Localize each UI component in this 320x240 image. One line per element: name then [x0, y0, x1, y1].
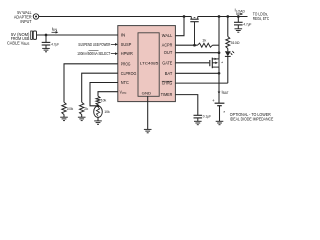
svg-text:4.7μF: 4.7μF [243, 21, 251, 26]
pin CHRG overline [162, 80, 173, 82]
wire: CHRG pin to LED [175, 82, 227, 84]
svg-text:100mA/500mA SELECT: 100mA/500mA SELECT [77, 51, 110, 56]
node: junction dot BAT [218, 72, 221, 75]
wire: WALL pin to rail riser [175, 17, 184, 36]
svg-text:ACPR: ACPR [162, 43, 173, 48]
svg-text:PROG: PROG [121, 61, 131, 66]
svg-text:100k: 100k [67, 107, 74, 111]
ic U1 LTC4085 body [118, 26, 176, 102]
label: 100mA/500mA SELECT with arrow into HPWR [77, 50, 118, 56]
svg-text:GND: GND [142, 91, 152, 96]
transistor Q2 body arrow [215, 62, 218, 65]
svg-text:CLPROG: CLPROG [121, 71, 137, 76]
svg-text:LTC4085: LTC4085 [140, 61, 159, 66]
node: wall adapter input jack J1 [33, 14, 38, 19]
wire: GND pin to ground [147, 96, 149, 129]
svg-text:SUSPEND USB POWER: SUSPEND USB POWER [78, 42, 110, 47]
wire: divider node into thermistor [97, 105, 99, 107]
ground: IC GND [144, 129, 152, 132]
svg-text:IIN: IIN [52, 26, 58, 32]
wire: NTC pin tap to divider midpoint [90, 83, 118, 106]
svg-text:TIMER: TIMER [161, 92, 173, 97]
svg-text:4.7μF: 4.7μF [51, 41, 59, 46]
ground: output cap ground [235, 29, 243, 32]
wire: wall rail from Q1 drain to load [198, 16, 248, 18]
capacitor C1 4.7uF input bypass [42, 35, 51, 49]
ground: input cap ground [42, 48, 50, 51]
svg-text:OUT: OUT [164, 50, 173, 55]
transistor Q1 wall PMOS in series with rail [190, 17, 198, 46]
wire: CLPROG pin to resistor [82, 73, 118, 102]
label: TO LDOS REGS ETC [253, 11, 269, 21]
wire: wall rail from jack to PMOS Q1 [39, 16, 192, 18]
wire: Q2 source to BAT node [218, 67, 220, 73]
ground: CLPROG resistor ground [78, 117, 86, 120]
node: junction dot OUT riser on rail [218, 15, 221, 18]
ground: timer cap ground [194, 121, 202, 124]
svg-text:+: + [212, 98, 215, 103]
battery BT1 single cell Li-Ion [212, 98, 224, 122]
wire: resistor R1 to ground [63, 115, 65, 118]
label: SUSPEND USB POWER with arrow into SUSP [78, 42, 118, 47]
svg-text:INPUT: INPUT [20, 19, 31, 24]
svg-text:ILOAD: ILOAD [235, 8, 246, 14]
transistor Q1 body arrow [193, 17, 196, 18]
wire: resistor R2 to ground [81, 115, 83, 118]
node: junction dot ACPR gate [193, 44, 196, 47]
wire: GATE pin to Q2 gate [175, 62, 209, 64]
ic U1 part number inner box [138, 33, 159, 97]
svg-text:*: * [223, 110, 225, 116]
label: 5V (NOM) FROM USB CABLE VBUS [7, 32, 30, 46]
label: ILOAD current annotation [235, 8, 246, 16]
wire: VNTC pin to 10k resistor [98, 92, 118, 97]
svg-text:10k: 10k [104, 110, 110, 114]
resistor R3 10k NTC bias [96, 96, 100, 105]
node: USB VBUS input plug J2 [31, 31, 37, 39]
node: junction dot LED branch on rail [226, 15, 229, 18]
wire: BAT node down to battery [218, 73, 220, 103]
wire: 1k to OUT riser [213, 44, 220, 46]
LED D1 charge indicator [225, 49, 235, 84]
svg-text:BAT: BAT [165, 71, 173, 76]
resistor R4 510 Ohm LED pullup [227, 17, 229, 37]
wire: ACPR pin to Q1 gate node [175, 44, 197, 46]
svg-text:0.1μF: 0.1μF [203, 114, 212, 119]
wire: OUT riser vertical [218, 17, 220, 59]
resistor R1 100k PROG [62, 102, 66, 114]
wire: OUT pin to riser [175, 52, 219, 54]
svg-text:WALL: WALL [162, 33, 173, 38]
wire: VBUS to IN pin [37, 34, 118, 36]
svg-text:REGs, ETC: REGs, ETC [253, 16, 269, 21]
svg-text:10k: 10k [101, 98, 107, 102]
ground: battery ground [216, 121, 224, 124]
wire: TIMER pin to timing cap [175, 95, 197, 116]
label: optional note [223, 110, 273, 121]
svg-text:IDEAL DIODE IMPEDANCE: IDEAL DIODE IMPEDANCE [230, 116, 274, 121]
wire: PROG pin to resistor [64, 64, 118, 102]
pin labels right side [161, 33, 173, 97]
node: junction dot NTC divider [97, 104, 100, 107]
resistor R2 2k CLPROG [80, 102, 84, 114]
node: junction dot output cap branch on rail [237, 15, 240, 18]
pin labels left side [120, 33, 137, 95]
label: 5V WALL ADAPTER INPUT [14, 10, 32, 24]
label: IBAT current annotation [218, 89, 229, 95]
node: junction dot OUT [218, 51, 221, 54]
svg-text:IN: IN [121, 33, 126, 38]
svg-text:IBAT: IBAT [222, 89, 229, 95]
svg-text:CABLE VBUS: CABLE VBUS [7, 41, 29, 47]
svg-text:510Ω: 510Ω [231, 40, 240, 45]
svg-text:VNTC: VNTC [120, 89, 127, 95]
svg-text:2k: 2k [84, 107, 88, 111]
wire: thermistor to ground [97, 117, 99, 121]
node: junction dot input cap [45, 34, 48, 37]
svg-text:SUSP: SUSP [121, 42, 132, 47]
svg-text:*: * [221, 61, 223, 66]
node: junction dot wall rail / WALL pin riser [183, 15, 186, 18]
svg-text:NTC: NTC [121, 80, 129, 85]
svg-text:1k: 1k [202, 38, 206, 42]
transistor Q2 ideal diode PMOS [210, 58, 219, 69]
capacitor C3 0.1uF timer [194, 115, 203, 121]
wire: BAT pin to battery [175, 72, 219, 74]
ground: PROG resistor ground [60, 117, 68, 120]
svg-text:HPWR: HPWR [121, 51, 133, 56]
capacitor C2 4.7uF at OUT rail [234, 17, 243, 29]
resistor R5 1k gate pull [198, 43, 213, 47]
thermistor RT1 10k NTC [94, 106, 103, 117]
svg-text:GATE: GATE [162, 60, 172, 65]
ground: NTC thermistor ground [94, 121, 102, 124]
label: IIN current annotation [52, 26, 59, 33]
